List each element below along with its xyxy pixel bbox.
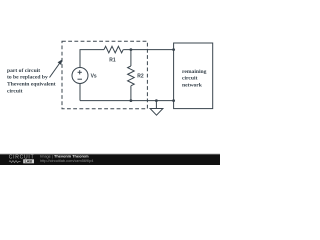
svg-text:LAB: LAB [25, 160, 33, 164]
svg-text:to be replaced by: to be replaced by [7, 75, 48, 81]
remaining circuit network box [174, 43, 213, 109]
footer logo LAB tag [23, 159, 34, 163]
label: remaining circuit network [182, 69, 207, 89]
Thevenin dashed enclosure box [62, 41, 147, 108]
node junction at R1 right / R2 top [130, 48, 133, 51]
svg-text:R1: R1 [109, 58, 116, 64]
annotation arrow [50, 60, 63, 78]
svg-text:network: network [182, 83, 203, 89]
svg-text:http://circuitlab.com/czm569lp: http://circuitlab.com/czm569lp4 [40, 158, 94, 163]
resistor R2 [128, 66, 135, 86]
node junction at R2 bottom [130, 99, 133, 102]
wire: Vs bottom lead [79, 84, 81, 101]
svg-text:circuit: circuit [182, 76, 198, 82]
node junction at box top-left terminal [172, 48, 175, 51]
svg-text:remaining: remaining [182, 69, 207, 75]
wire: R2 bottom lead [130, 86, 132, 101]
node junction at box bottom-left terminal [172, 99, 175, 102]
voltage source Vs [72, 68, 88, 84]
wire: bottom rail [80, 100, 174, 102]
footer bar [0, 155, 220, 165]
svg-text:circuit: circuit [7, 88, 23, 94]
annotation text: part of circuit to be replaced by Thevenin equivalent circuit [7, 68, 56, 94]
resistor R1 [104, 46, 123, 53]
svg-text:part of circuit: part of circuit [7, 68, 40, 74]
wire: top rail from Vs to remaining-network box [80, 50, 174, 68]
svg-text:Vs: Vs [91, 74, 97, 80]
svg-text:R2: R2 [137, 73, 144, 79]
wire: R2 top lead [130, 50, 132, 66]
svg-text:Thevenin equivalent: Thevenin equivalent [7, 82, 56, 88]
footer logo resistor squiggle [9, 161, 21, 163]
ground [150, 101, 163, 116]
node junction at ground tap [155, 99, 158, 102]
